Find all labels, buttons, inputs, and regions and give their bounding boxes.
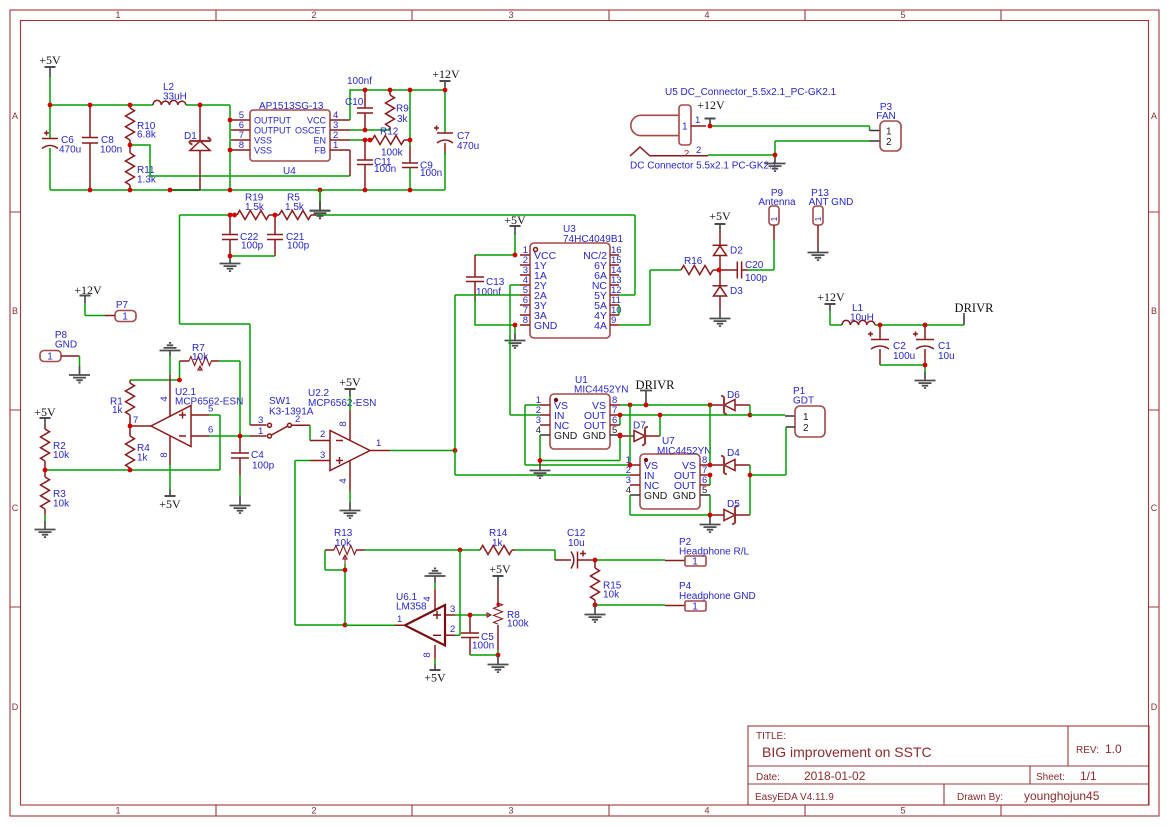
svg-text:5: 5	[208, 404, 213, 415]
ground under P8	[69, 366, 90, 383]
svg-text:GND: GND	[644, 490, 668, 502]
wire R13 wiper down to U6.1 out	[344, 570, 346, 625]
svg-text:+5V: +5V	[489, 562, 511, 576]
svg-text:1: 1	[886, 127, 892, 138]
svg-text:10u: 10u	[938, 351, 955, 362]
svg-text:GDT: GDT	[793, 396, 814, 407]
svg-text:10k: 10k	[335, 538, 352, 549]
resistor R19	[237, 193, 275, 220]
svg-text:1: 1	[115, 10, 120, 20]
svg-text:FAN: FAN	[876, 111, 895, 122]
svg-text:SW1: SW1	[269, 396, 291, 407]
opamp U2.1 MCP6562	[130, 375, 243, 465]
wire SW to U2.2 pin2	[309, 425, 311, 440]
svg-text:10k: 10k	[53, 499, 70, 510]
svg-text:OSCET: OSCET	[295, 126, 327, 136]
svg-text:7: 7	[133, 415, 138, 426]
svg-text:4: 4	[704, 806, 709, 816]
svg-text:8: 8	[422, 652, 433, 657]
svg-text:8: 8	[239, 140, 244, 151]
connector P9 antenna	[758, 188, 796, 240]
connector U5 DC jack	[630, 87, 837, 172]
ground under U1	[530, 461, 551, 479]
svg-text:TITLE:: TITLE:	[756, 731, 786, 742]
wire U7 GND under box	[630, 495, 710, 515]
wire R14 to C12	[515, 550, 555, 560]
svg-text:1.5k: 1.5k	[285, 202, 305, 213]
IC U7 MIC4452YN	[626, 436, 712, 509]
svg-text:9: 9	[611, 315, 616, 326]
svg-text:BIG improvement on SSTC: BIG improvement on SSTC	[762, 744, 932, 760]
resistor R8 trimmer	[487, 584, 530, 650]
svg-text:D6: D6	[727, 390, 740, 401]
svg-text:C10: C10	[345, 97, 364, 108]
diode D2	[713, 232, 744, 270]
wire R7 right to minus node	[219, 361, 240, 436]
svg-text:+5V: +5V	[39, 53, 61, 67]
svg-text:VCC: VCC	[307, 116, 327, 126]
svg-text:4: 4	[626, 485, 631, 496]
net label DRIVR at U1	[636, 378, 676, 405]
wire VCC rail	[350, 90, 445, 120]
svg-text:100p: 100p	[745, 273, 768, 284]
svg-text:1: 1	[115, 806, 120, 816]
svg-text:2: 2	[450, 624, 455, 635]
svg-text:GND: GND	[534, 320, 558, 332]
capacitor C8	[82, 105, 122, 190]
wire U5 pin1 to FAN	[710, 126, 870, 131]
opamp U6.1 LM358	[395, 589, 455, 659]
wire EN	[350, 139, 371, 141]
svg-text:+5V: +5V	[424, 671, 446, 685]
capacitor C7	[434, 90, 479, 190]
svg-text:OUTPUT: OUTPUT	[254, 126, 292, 136]
svg-text:R12: R12	[380, 127, 399, 138]
wire U6.1 plus to R8 wiper	[455, 614, 487, 616]
wire U1 OUT line	[620, 415, 750, 425]
wire C2 C1 gnd	[880, 365, 925, 372]
svg-text:4: 4	[159, 396, 170, 401]
svg-text:5: 5	[612, 425, 617, 436]
svg-text:100n: 100n	[374, 164, 396, 175]
diode D4	[710, 448, 750, 474]
svg-text:1: 1	[397, 614, 402, 625]
junction dots left section	[43, 378, 243, 473]
svg-text:33uH: 33uH	[163, 92, 187, 103]
ground under U3 pin8	[505, 325, 526, 348]
ground under R8	[488, 655, 509, 672]
capacitor C2	[868, 325, 915, 365]
net label DRIVR right	[955, 301, 995, 325]
capacitor C20	[720, 260, 768, 284]
capacitor C1	[913, 325, 955, 365]
resistor R1	[110, 380, 135, 426]
power flag +5V above R8	[489, 562, 511, 584]
svg-text:younghojun45: younghojun45	[1024, 789, 1100, 803]
capacitor C5	[461, 615, 494, 655]
svg-text:D2: D2	[730, 246, 743, 257]
svg-text:U4: U4	[283, 166, 296, 177]
svg-text:Antenna: Antenna	[758, 197, 796, 208]
svg-text:R16: R16	[684, 256, 703, 267]
power flag +12V at U5	[697, 98, 725, 126]
svg-text:REV:: REV:	[1076, 745, 1099, 756]
svg-text:100k: 100k	[507, 619, 530, 630]
svg-text:D1: D1	[184, 131, 197, 142]
wire U2.2 output	[390, 450, 455, 452]
svg-text:+12V: +12V	[697, 98, 725, 112]
power flag +5V under U6.1	[424, 659, 446, 685]
svg-text:D3: D3	[730, 286, 743, 297]
title block	[748, 726, 1149, 805]
opamp U2.2 MCP6562	[308, 388, 390, 491]
svg-text:10k: 10k	[53, 450, 70, 461]
svg-text:4A: 4A	[594, 320, 607, 332]
wire C12 to P2	[595, 559, 665, 561]
svg-text:1k: 1k	[112, 405, 124, 416]
power flag +5V at R2	[34, 405, 56, 426]
wire U1 GND rail	[540, 435, 620, 461]
wire U3 4A to R16	[619, 270, 681, 325]
svg-text:D7: D7	[633, 421, 646, 432]
diode D3	[713, 270, 744, 309]
svg-text:D5: D5	[727, 499, 740, 510]
wire R13 left to wiper	[325, 550, 345, 570]
svg-text:2: 2	[886, 137, 892, 148]
svg-text:100p: 100p	[241, 241, 264, 252]
svg-text:4: 4	[536, 425, 541, 436]
IC U3 74HC4049B1	[520, 224, 623, 338]
svg-text:2: 2	[684, 149, 689, 160]
wire FB feedback	[130, 145, 350, 176]
resistor R3	[41, 470, 71, 515]
svg-text:1: 1	[814, 216, 823, 221]
wire U1 VS pin1 rail	[525, 405, 630, 465]
svg-text:FB: FB	[314, 146, 326, 156]
capacitor C6	[42, 131, 81, 156]
svg-text:470u: 470u	[59, 145, 81, 156]
resistor R2	[41, 426, 71, 470]
junction dots power section	[48, 88, 448, 193]
ground under D3	[710, 309, 731, 326]
resistor R15	[591, 560, 622, 605]
resistor R12	[372, 127, 409, 159]
ground above U6.1 pin4	[425, 568, 446, 589]
wire bottom GND bus	[50, 105, 445, 190]
power flag +5V top-left	[39, 53, 61, 77]
diode D1 zener	[184, 105, 211, 190]
svg-text:GND: GND	[673, 490, 697, 502]
wire R13 to R14	[365, 549, 480, 551]
svg-text:1.5k: 1.5k	[245, 202, 265, 213]
svg-text:GND: GND	[55, 340, 77, 351]
svg-text:4: 4	[338, 478, 349, 483]
capacitor C13	[466, 255, 505, 301]
wire U6.1 output	[345, 624, 395, 626]
svg-text:5: 5	[900, 10, 905, 20]
svg-text:8: 8	[159, 452, 170, 457]
wire C13 to GND pin8	[475, 299, 515, 325]
svg-text:ANT GND: ANT GND	[809, 197, 854, 208]
wire C5 R8 gnd	[470, 650, 498, 655]
wire C20 to P9	[748, 240, 774, 270]
svg-text:8: 8	[523, 315, 528, 326]
resistor R5	[275, 193, 316, 220]
svg-text:AP1513SG-13: AP1513SG-13	[259, 101, 324, 112]
svg-text:MCP6562-ESN: MCP6562-ESN	[308, 398, 376, 409]
svg-text:1k: 1k	[492, 538, 504, 549]
svg-text:DC Connector 5.5x2.1 PC-GK2.1: DC Connector 5.5x2.1 PC-GK2.1	[630, 161, 778, 172]
junction dots U1	[538, 403, 663, 463]
ground under C4	[230, 475, 251, 513]
svg-text:+12V: +12V	[432, 67, 460, 81]
svg-text:+5V: +5V	[709, 209, 731, 223]
svg-text:1.0: 1.0	[1105, 742, 1122, 756]
svg-text:B: B	[1151, 306, 1157, 316]
connector P1 GDT	[793, 386, 825, 437]
svg-text:1: 1	[692, 557, 698, 568]
svg-text:D: D	[1151, 702, 1158, 712]
connector P8	[40, 330, 80, 366]
svg-text:B: B	[12, 306, 18, 316]
resistor R7 trimmer	[180, 343, 220, 371]
svg-text:U5 DC_Connector_5.5x2.1_PC-GK2: U5 DC_Connector_5.5x2.1_PC-GK2.1	[665, 87, 837, 98]
connector P7	[105, 300, 136, 323]
svg-text:Headphone R/L: Headphone R/L	[679, 547, 749, 558]
wire D7 up to OUT	[659, 415, 661, 436]
wire R15 to P4	[595, 604, 665, 606]
svg-text:VSS: VSS	[254, 146, 272, 156]
capacitor C12	[567, 528, 595, 569]
svg-text:3: 3	[450, 604, 455, 615]
svg-text:2: 2	[311, 806, 316, 816]
ground under U7	[700, 515, 721, 532]
svg-text:1/1: 1/1	[1080, 769, 1097, 783]
svg-text:C: C	[1151, 503, 1158, 513]
svg-text:C: C	[12, 503, 19, 513]
svg-text:100p: 100p	[252, 461, 275, 472]
power flag +5V at D2	[709, 209, 731, 232]
svg-text:+5V: +5V	[159, 497, 181, 511]
svg-text:A: A	[1151, 111, 1157, 121]
power flag +5V above U2.2	[339, 375, 361, 410]
capacitor C4	[231, 436, 275, 475]
connector P13 ant gnd	[808, 188, 854, 260]
diode D7	[620, 421, 660, 446]
svg-text:Date:: Date:	[756, 772, 780, 783]
svg-text:74HC4049B1: 74HC4049B1	[563, 234, 623, 245]
svg-text:100nf: 100nf	[476, 287, 501, 298]
switch SW1	[250, 396, 314, 438]
svg-text:GND: GND	[583, 430, 607, 442]
svg-text:MIC4452YN: MIC4452YN	[574, 385, 628, 396]
wire U3 2A to U2.2 out node	[455, 295, 520, 450]
power flag +5V under U2.1	[159, 465, 181, 511]
wire +5V top bus	[50, 77, 230, 105]
svg-text:+5V: +5V	[34, 405, 56, 419]
capacitor C10	[345, 76, 373, 130]
connector P4 headphone gnd	[679, 581, 756, 613]
wire U1 VS pin8 DRIVR line	[620, 404, 710, 406]
wire U2.2 plus input from U6.1	[295, 461, 345, 626]
power flag +12V top	[432, 67, 460, 90]
svg-text:4: 4	[422, 596, 433, 601]
wire P1 pin2 down	[786, 426, 795, 428]
ground under C22	[220, 256, 241, 271]
capacitor C9	[402, 146, 442, 179]
connector P2 headphone	[679, 537, 749, 568]
connector P3 FAN	[876, 102, 901, 151]
wire D6 to OUT line	[749, 405, 751, 415]
wire U3 5A-4Y jog	[618, 305, 620, 315]
ground under U2.2 pin4	[340, 491, 361, 518]
svg-text:D: D	[12, 702, 19, 712]
resistor R14	[480, 528, 515, 555]
svg-text:2: 2	[803, 423, 809, 434]
wire C22-C21 gnd link	[230, 255, 275, 257]
svg-text:Headphone GND: Headphone GND	[679, 591, 756, 602]
wire U2.1 minus to SW	[209, 435, 250, 437]
svg-text:100n: 100n	[420, 168, 442, 179]
wire comparator feed y215	[180, 215, 636, 295]
svg-text:2: 2	[320, 429, 325, 440]
wire U2.2 out to U7 IN	[455, 450, 630, 475]
diode D5	[710, 499, 750, 524]
svg-text:2: 2	[311, 10, 316, 20]
svg-text:1: 1	[47, 352, 53, 363]
svg-text:1: 1	[695, 115, 700, 126]
ground at U5 pin2	[765, 155, 786, 171]
svg-text:1: 1	[803, 412, 809, 423]
IC U1 MIC4452YN	[536, 375, 629, 449]
resistor R10	[126, 105, 157, 145]
wire U4 left rail	[229, 105, 231, 190]
IC U4 AP1513SG-13	[231, 101, 350, 177]
wire DRIVR rail	[880, 324, 964, 326]
svg-text:OUTPUT: OUTPUT	[254, 116, 292, 126]
svg-text:470u: 470u	[457, 141, 479, 152]
svg-text:EasyEDA V4.11.9: EasyEDA V4.11.9	[755, 792, 834, 803]
svg-text:1: 1	[770, 216, 779, 221]
svg-text:1: 1	[376, 438, 381, 449]
svg-text:A: A	[12, 111, 18, 121]
svg-text:100p: 100p	[287, 241, 310, 252]
svg-text:VSS: VSS	[254, 136, 272, 146]
ground under R15	[585, 605, 606, 622]
svg-text:4: 4	[704, 10, 709, 20]
svg-text:GND: GND	[554, 430, 578, 442]
svg-text:2: 2	[696, 145, 701, 156]
resistor R16	[681, 256, 719, 275]
capacitor C22	[222, 215, 264, 256]
svg-text:P7: P7	[116, 300, 129, 311]
svg-text:3k: 3k	[397, 114, 409, 125]
svg-text:6.8k: 6.8k	[137, 130, 157, 141]
svg-text:3: 3	[508, 806, 513, 816]
wire dark overlap segment	[170, 189, 200, 191]
capacitor C11	[357, 140, 396, 190]
power flag +12V at P7	[74, 283, 105, 316]
ground above R5 right	[310, 190, 331, 218]
wire U3 2Y to U1 IN	[510, 285, 540, 415]
wire VS drop to U7	[629, 405, 631, 465]
svg-text:100n: 100n	[100, 145, 122, 156]
ground above U2.1 pin4	[160, 343, 181, 375]
svg-text:LM358: LM358	[396, 602, 427, 613]
svg-text:2018-01-02: 2018-01-02	[804, 769, 866, 783]
ground under C1	[915, 372, 936, 388]
wire U7 VS to D4	[709, 405, 711, 465]
wire U7 OUT jog	[709, 475, 711, 485]
svg-text:3: 3	[320, 450, 325, 461]
svg-text:DRIVR: DRIVR	[955, 301, 995, 315]
wire U1 pin5 jog	[619, 435, 621, 437]
svg-text:3: 3	[258, 415, 263, 426]
wire D5 up to OUT	[749, 475, 751, 515]
wire OSCET	[350, 129, 390, 131]
svg-text:1: 1	[258, 426, 263, 437]
svg-text:10k: 10k	[192, 352, 209, 363]
wire U5 pin2 to gnd and FAN pin2	[708, 141, 870, 155]
wire left drop to R1/R7	[180, 215, 251, 425]
svg-text:10uH: 10uH	[850, 313, 874, 324]
resistor R4	[126, 426, 151, 470]
wire divider node y470	[45, 415, 220, 470]
svg-text:+5V: +5V	[504, 213, 526, 227]
wire VCC C13	[475, 254, 515, 256]
svg-text:2: 2	[295, 414, 300, 425]
wire D4 to OUT line	[749, 465, 751, 475]
diode D6	[710, 390, 750, 414]
svg-text:C4: C4	[251, 450, 264, 461]
svg-text:6: 6	[208, 425, 213, 436]
inductor L1	[830, 303, 880, 325]
ground under bus	[310, 190, 331, 218]
svg-text:Sheet:: Sheet:	[1036, 772, 1065, 783]
svg-text:R9: R9	[396, 104, 409, 115]
svg-text:EN: EN	[313, 136, 326, 146]
wire C9 rail	[409, 90, 410, 190]
resistor R11	[126, 145, 157, 190]
svg-text:5: 5	[900, 806, 905, 816]
svg-text:100u: 100u	[893, 351, 915, 362]
svg-text:1: 1	[333, 140, 338, 151]
capacitor C21	[267, 215, 310, 256]
power flag +5V at U3	[504, 213, 526, 255]
svg-text:+5V: +5V	[339, 375, 361, 389]
wire U2.1 plus input	[209, 414, 220, 416]
svg-text:+12V: +12V	[817, 290, 845, 304]
resistor R9	[386, 90, 410, 130]
svg-text:5: 5	[702, 485, 707, 496]
inductor L2	[153, 82, 187, 105]
svg-text:1: 1	[692, 602, 698, 613]
power flag +12V at L1	[817, 290, 845, 325]
svg-text:1: 1	[682, 122, 688, 133]
svg-text:1k: 1k	[137, 453, 149, 464]
wire R1 top to R7	[130, 361, 180, 380]
ground under R3	[35, 515, 56, 537]
svg-text:10k: 10k	[603, 590, 620, 601]
svg-text:10u: 10u	[568, 538, 585, 549]
svg-text:100nf: 100nf	[347, 76, 372, 87]
svg-text:100n: 100n	[472, 641, 494, 652]
svg-text:3: 3	[508, 10, 513, 20]
svg-text:Drawn By:: Drawn By:	[957, 792, 1003, 803]
resistor R13 trimmer	[325, 528, 365, 564]
svg-text:8: 8	[338, 421, 349, 426]
svg-text:1: 1	[122, 312, 128, 323]
